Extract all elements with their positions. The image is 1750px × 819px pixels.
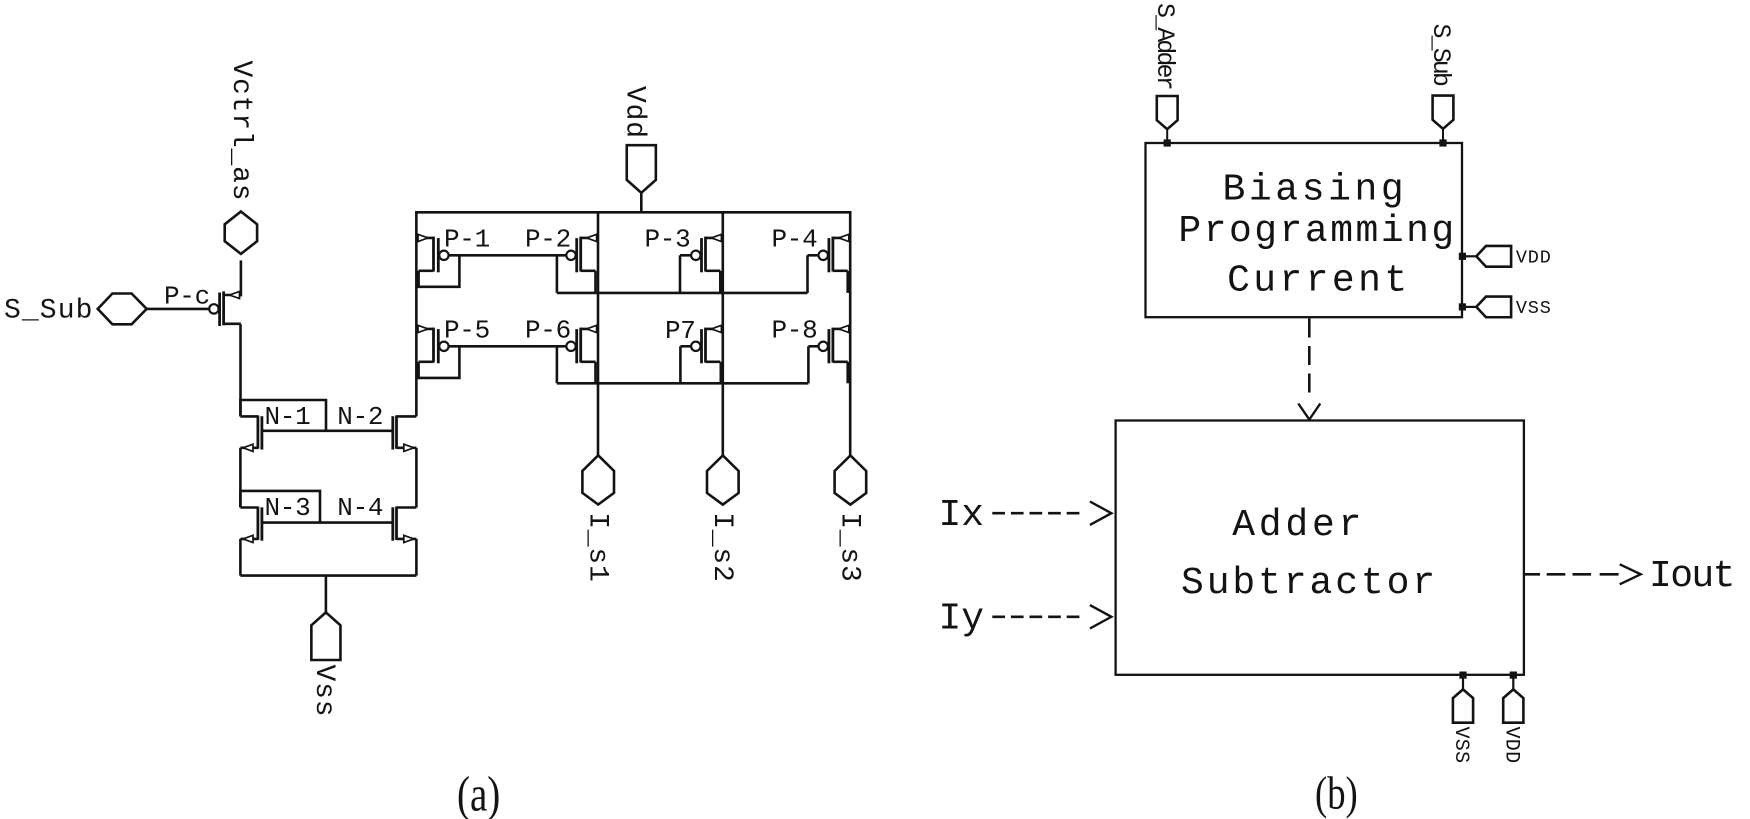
port VDD (bottom) bbox=[1499, 672, 1523, 764]
port Vdd bbox=[619, 86, 656, 212]
wire Vdd top rail bbox=[416, 211, 850, 214]
svg-text:VSS: VSS bbox=[1516, 298, 1552, 319]
port S_Adder bbox=[1150, 3, 1179, 147]
wire P-1 gate line to P-2 bbox=[449, 254, 567, 257]
transistor P-3 bbox=[645, 224, 723, 272]
wire long horizontal row 1 bbox=[557, 292, 808, 295]
wire P-3 gate wire bbox=[680, 254, 691, 257]
svg-text:I_s2: I_s2 bbox=[706, 512, 737, 582]
svg-text:Programming: Programming bbox=[1178, 210, 1456, 253]
port I_s1 bbox=[581, 455, 614, 582]
svg-text:P-6: P-6 bbox=[525, 316, 571, 346]
svg-text:I_s3: I_s3 bbox=[834, 512, 865, 582]
svg-text:VDD: VDD bbox=[1499, 727, 1522, 764]
wire P-8 drain drop bbox=[846, 362, 849, 384]
svg-text:Current: Current bbox=[1227, 260, 1410, 303]
wire N-1 diode box bbox=[240, 400, 326, 431]
svg-text:P-c: P-c bbox=[164, 282, 210, 312]
svg-text:Biasing: Biasing bbox=[1223, 168, 1408, 211]
svg-text:P-8: P-8 bbox=[772, 316, 818, 346]
wire P-4 gate drop bbox=[806, 255, 809, 293]
port Vctrl_as bbox=[225, 61, 257, 254]
svg-text:VDD: VDD bbox=[1516, 247, 1552, 268]
port Vss bbox=[308, 612, 340, 717]
block Adder Subtractor bbox=[1116, 421, 1524, 675]
svg-text:N-3: N-3 bbox=[265, 493, 311, 523]
wire N-2 source down to N-4 drain bbox=[415, 448, 418, 508]
svg-text:S_Sub: S_Sub bbox=[1426, 24, 1455, 86]
wire P-1 drain feedback L bbox=[419, 255, 460, 286]
transistor P-c bbox=[164, 282, 241, 327]
transistor N-3 bbox=[240, 493, 310, 543]
wire column P-2/P-6 to I_s1 bbox=[597, 211, 600, 455]
wire P-3 gate drop bbox=[679, 255, 682, 293]
svg-text:P-4: P-4 bbox=[772, 224, 818, 254]
svg-text:P7: P7 bbox=[665, 316, 696, 346]
dashed arrow Biasing to Adder bbox=[1308, 319, 1311, 400]
wire column P-1/P-5 rail (Vdd rail to N-2 drain) bbox=[415, 211, 418, 416]
wire P-5 drain L to rail bbox=[416, 377, 419, 380]
wire P-2 drain drop bbox=[594, 271, 597, 293]
svg-text:(a): (a) bbox=[457, 766, 500, 819]
port S_Sub bbox=[4, 294, 147, 327]
svg-text:Iy: Iy bbox=[939, 598, 985, 641]
wire long horizontal row 2 bbox=[557, 382, 809, 385]
wire N3-N4 gate line bbox=[262, 521, 393, 524]
wire P7 gate wire bbox=[680, 345, 691, 348]
transistor P-2 bbox=[525, 224, 598, 272]
transistor N-1 bbox=[240, 402, 310, 451]
port VDD (right) bbox=[1459, 246, 1552, 268]
svg-text:Vctrl_as: Vctrl_as bbox=[225, 61, 256, 202]
wire S_Sub to P-c gate bbox=[147, 308, 209, 311]
wire P-c drain to N-1 drain bbox=[239, 324, 242, 416]
svg-text:N-4: N-4 bbox=[337, 493, 383, 523]
svg-text:Adder: Adder bbox=[1232, 504, 1365, 547]
port VSS (bottom) bbox=[1449, 672, 1473, 764]
transistor P-6 bbox=[525, 316, 598, 364]
wire P-4 drain drop bbox=[846, 271, 849, 293]
svg-text:P-3: P-3 bbox=[645, 224, 691, 254]
svg-text:S_Adder: S_Adder bbox=[1150, 3, 1179, 89]
svg-text:Vss: Vss bbox=[308, 665, 339, 718]
wire N1-N2 gate line bbox=[262, 429, 393, 432]
svg-text:P-5: P-5 bbox=[444, 316, 490, 346]
transistor P-4 bbox=[772, 224, 851, 272]
wire N-3 source to bottom rail bbox=[239, 539, 242, 576]
port S_Sub (b) bbox=[1426, 24, 1455, 147]
transistor P-8 bbox=[772, 316, 851, 364]
svg-text:Iout: Iout bbox=[1649, 555, 1734, 598]
transistor P-5 bbox=[416, 316, 490, 364]
wire bottom rail bbox=[240, 574, 416, 577]
wire P-8 gate wire bbox=[808, 345, 818, 348]
svg-text:N-2: N-2 bbox=[337, 402, 383, 432]
transistor N-2 bbox=[337, 402, 416, 451]
wire P-5 drain feedback L bbox=[419, 346, 460, 378]
wire Vctrl_as to P-c source bbox=[240, 260, 243, 296]
svg-text:S_Sub: S_Sub bbox=[4, 296, 94, 327]
wire Vss stem bbox=[325, 576, 328, 613]
port VSS (right) bbox=[1459, 297, 1552, 319]
svg-text:I_s1: I_s1 bbox=[581, 512, 612, 582]
wire P7 gate drop bbox=[679, 346, 682, 383]
port I_s3 bbox=[834, 455, 867, 582]
wire P-6 drain drop bbox=[594, 362, 597, 384]
wire column P-4/P-8 to I_s3 bbox=[849, 211, 852, 455]
svg-text:Ix: Ix bbox=[939, 494, 985, 537]
wire N-3 diode box bbox=[240, 491, 320, 523]
wire P-4 gate wire bbox=[808, 254, 819, 257]
svg-text:Vdd: Vdd bbox=[619, 86, 650, 139]
wire gate bus row1 to long rail bbox=[556, 255, 559, 293]
wire gate bus row2 to long rail bbox=[556, 346, 559, 383]
svg-text:P-1: P-1 bbox=[444, 224, 490, 254]
wire P-3 drain drop bbox=[719, 271, 722, 293]
wire P-5 gate line to P-6 bbox=[449, 345, 567, 348]
svg-text:(b): (b) bbox=[1315, 767, 1358, 819]
svg-text:P-2: P-2 bbox=[525, 224, 571, 254]
transistor N-4 bbox=[337, 493, 416, 543]
block Biasing Programming Current bbox=[1146, 143, 1463, 317]
output Iout bbox=[1524, 573, 1618, 576]
svg-text:N-1: N-1 bbox=[265, 402, 311, 432]
wire N-1 source down to N-3 drain bbox=[239, 448, 242, 508]
port I_s2 bbox=[706, 455, 739, 582]
wire column P-3/P7 to I_s2 bbox=[721, 211, 724, 455]
transistor P7 bbox=[665, 316, 723, 363]
wire N-4 source to bottom rail bbox=[415, 539, 418, 576]
transistor P-1 bbox=[416, 224, 490, 272]
wire P-8 gate drop bbox=[807, 346, 810, 383]
wire P7 drain drop bbox=[719, 362, 722, 384]
svg-text:VSS: VSS bbox=[1449, 727, 1472, 764]
svg-text:Subtractor: Subtractor bbox=[1181, 562, 1438, 605]
